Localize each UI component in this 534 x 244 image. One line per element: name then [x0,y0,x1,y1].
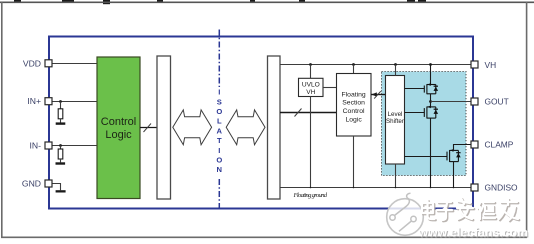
diode D3 (body) [456,152,460,154]
wire VDD to control logic [52,63,97,65]
output buffer block [268,56,281,199]
pin VDD [45,60,52,67]
wire Q2 drain [430,102,432,107]
pin VH [471,61,478,68]
ISOLATION vertical label [216,88,222,175]
svg-text:I: I [218,88,220,97]
svg-text:Section: Section [342,100,365,107]
svg-text:L: L [217,117,222,126]
node GOUT [429,100,432,103]
svg-text:N: N [217,165,222,174]
wire rail to FSCL [353,65,355,74]
diode D2 (body) [434,108,438,110]
pin IN+ [45,98,52,105]
level shifter block [386,76,405,165]
svg-text:Level: Level [388,111,403,118]
node rail-FSCL [353,187,355,189]
svg-text:Floating: Floating [342,91,366,98]
node IN- junction [59,144,62,147]
wire floating ground rail [280,187,471,189]
wire control logic to input buffer [140,127,157,129]
bus slash (left) [144,124,152,133]
svg-text:I: I [218,146,220,155]
wire UVLO to floating ground [310,97,312,188]
resistor R2 [58,149,63,159]
wire IN- to control logic [52,145,97,147]
wire IN+ pulldown [60,102,62,109]
svg-text:VH: VH [485,60,497,70]
outer frame [0,1,534,3]
pin IN- [45,142,52,149]
transistor Q3 [447,150,458,162]
node VH-UVLO [309,63,312,66]
floating section control logic block [337,74,372,137]
svg-text:T: T [217,136,222,145]
input buffer block [157,56,171,199]
wire Q1 gate [405,88,425,90]
svg-text:VDD: VDD [23,58,41,68]
cropped text remnants top [14,0,426,4]
ground (GND pin) [56,190,66,192]
svg-text:Control: Control [101,116,136,128]
ground (IN+) [56,122,66,124]
wire GOUT [431,101,472,103]
wire Q2 gate [405,112,425,114]
wire Q3 drain to CLAMP [454,145,472,151]
IC boundary box [49,37,473,209]
transistor Q2 [424,107,436,119]
watermark text (stylized) [423,199,519,221]
node VH-levelshifter [394,63,397,66]
pin GOUT [471,98,478,105]
svg-text:S: S [217,97,222,106]
node VH-FSCL [352,63,355,66]
node rail-Q3 [453,187,455,189]
node VH-Q1 [429,63,432,66]
wire IN- pulldown [60,146,62,150]
watermark logo circle [387,193,424,235]
svg-text:Floating ground: Floating ground [293,192,328,199]
isolation barrier line (upper) [218,30,220,88]
wire rail to Q1 drain [430,65,432,85]
bus slash (right) [295,109,302,117]
pin CLAMP [471,141,478,148]
svg-text:GNDISO: GNDISO [485,182,519,192]
control logic block U1 [97,57,140,199]
UVLO block [299,78,324,96]
svg-text:UVLO: UVLO [302,82,320,89]
wire rail to UVLO [310,65,312,79]
node rail-Q2 [430,187,432,189]
svg-text:GND: GND [22,178,41,188]
svg-text:Shifter: Shifter [386,118,404,125]
pin GNDISO [471,184,478,191]
isolation coupling arrow (right) [226,110,265,145]
pin GND [45,180,52,187]
transistor Q1 [424,84,436,94]
wire FSCL to floating ground [353,136,355,188]
svg-text:IN+: IN+ [27,96,41,106]
output stage region (shaded) [382,72,467,176]
wire rail to level shifter [395,65,397,76]
isolation barrier line (lower) [218,179,220,210]
svg-text:Control: Control [343,108,365,115]
wire IN+ to control logic [52,101,97,103]
node rail-UVLO [310,187,312,189]
svg-text:Logic: Logic [345,116,362,123]
wire output buffer to floating section control logic (bus) [280,112,337,114]
wire Q3 source to floating ground [453,162,455,188]
svg-text:GOUT: GOUT [485,97,509,107]
svg-text:O: O [216,156,222,165]
svg-text:A: A [217,126,223,135]
wire FSCL to level shifter (with arrow) [371,94,386,96]
svg-text:www.elecfans.com: www.elecfans.com [418,226,529,240]
ground (IN-) [56,162,66,164]
wire Q3 gate [405,156,448,158]
wire Q2 source to floating ground [430,118,432,187]
svg-text:VH: VH [306,89,315,96]
svg-text:O: O [216,107,222,116]
isolation coupling arrow (left) [173,110,212,145]
wire UVLO to FSCL [323,87,337,89]
node IN+ junction [59,100,62,103]
wire VH rail [280,64,471,66]
svg-text:IN-: IN- [30,141,42,151]
wire GND pin to ground [52,184,61,191]
svg-text:Logic: Logic [105,129,132,141]
wire level shifter to floating ground [395,164,397,188]
diode D1 (body) [434,85,438,87]
node rail-LS [395,187,397,189]
svg-text:CLAMP: CLAMP [485,140,514,150]
resistor R1 [58,109,63,119]
wire Q1 source to GOUT node [430,94,432,102]
bus slash (level shifter) [374,91,381,98]
